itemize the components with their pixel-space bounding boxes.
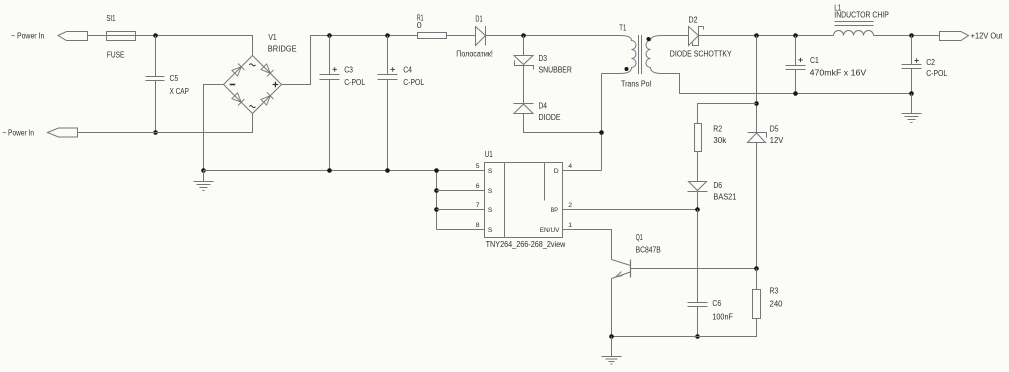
- resistor R2: [695, 124, 702, 152]
- junction +12V rail / C1: [793, 33, 798, 38]
- wire source pin bus: [436, 171, 438, 230]
- zener diode D3: [514, 56, 533, 65]
- svg-text:D4: D4: [539, 101, 548, 111]
- svg-text:C5: C5: [170, 73, 179, 83]
- junction bottom rail / C6: [695, 334, 700, 339]
- svg-text:C3: C3: [344, 64, 353, 74]
- wire C3 bottom lead: [329, 80, 331, 171]
- port ~Power In (top): [58, 32, 88, 41]
- wire base node to R3: [756, 269, 758, 290]
- svg-text:U1: U1: [485, 149, 493, 159]
- wire top AC rail to bridge top: [88, 36, 253, 56]
- junction DC rail / C3: [327, 33, 332, 38]
- svg-text:BP: BP: [551, 207, 559, 214]
- svg-text:C-POL: C-POL: [926, 68, 947, 78]
- svg-text:V1: V1: [268, 32, 276, 42]
- wire Q1 emitter down: [611, 279, 613, 337]
- bridge rectifier V1: [224, 56, 282, 114]
- svg-text:S: S: [488, 207, 493, 214]
- wire L1 to output port: [874, 35, 940, 37]
- svg-text:D5: D5: [770, 124, 779, 134]
- svg-text:30k: 30k: [713, 135, 727, 145]
- wire primary bottom to drain/pin4: [601, 74, 603, 171]
- polarity dot (secondary): [647, 37, 651, 41]
- svg-text:D1: D1: [475, 13, 482, 23]
- bridge diode (top-left arm): [232, 67, 241, 76]
- wire C2 bottom lead: [911, 69, 913, 94]
- capacitor C3: [320, 75, 340, 80]
- transformer T1 primary winding: [602, 36, 637, 74]
- diode D1: [476, 27, 486, 46]
- plus mark C1: [798, 58, 802, 62]
- resistor R1: [418, 33, 447, 39]
- wire D3 to D4: [523, 66, 525, 104]
- svg-text:0: 0: [417, 20, 422, 30]
- svg-text:D3: D3: [539, 53, 548, 63]
- schottky diode D2: [689, 27, 699, 46]
- bridge ~ mark (bottom): [249, 106, 255, 108]
- svg-text:R2: R2: [713, 124, 722, 134]
- junction bottom rail / emitter / ground: [609, 334, 614, 339]
- svg-text:C2: C2: [926, 57, 935, 67]
- wire C1 top lead: [795, 36, 797, 66]
- wire C4 top lead: [387, 36, 389, 75]
- svg-text:Trans Pol: Trans Pol: [621, 79, 651, 89]
- svg-text:240: 240: [770, 299, 783, 309]
- svg-text:5: 5: [476, 163, 480, 170]
- bridge diode (bottom-left arm): [232, 93, 241, 102]
- svg-text:D2: D2: [689, 15, 698, 25]
- svg-text:T1: T1: [619, 23, 626, 33]
- svg-text:R3: R3: [770, 285, 779, 295]
- bridge plus mark: [273, 82, 279, 88]
- svg-text:C4: C4: [403, 64, 412, 74]
- svg-text:12V: 12V: [770, 135, 784, 145]
- svg-text:8: 8: [476, 222, 480, 229]
- wire D6 to BP node: [697, 192, 699, 210]
- svg-text:+12V Out: +12V Out: [971, 31, 1003, 41]
- junction top rail / C5: [153, 33, 158, 38]
- wire bridge plus to DC rail: [282, 36, 418, 85]
- transformer T1 secondary winding: [646, 36, 662, 74]
- capacitor C5: [146, 77, 165, 81]
- svg-text:C6: C6: [712, 298, 721, 308]
- wire D4 to drain node: [524, 114, 602, 133]
- svg-text:BRIDGE: BRIDGE: [268, 43, 297, 53]
- svg-text:D: D: [554, 168, 559, 175]
- bridge diode (top-right arm): [261, 64, 270, 73]
- junction bus / pin6: [434, 188, 439, 193]
- wire C6 bottom lead: [697, 307, 699, 337]
- polarity dot (primary): [625, 67, 629, 71]
- wire to D3: [523, 36, 525, 56]
- transformer T1 core: [639, 35, 642, 74]
- svg-text:1: 1: [568, 222, 572, 229]
- zener diode D5: [748, 133, 767, 138]
- svg-text:470mkF x 16V: 470mkF x 16V: [810, 68, 867, 78]
- wire U1 pin 2 (BP) to D6 node: [563, 209, 698, 211]
- wire C6 top lead: [697, 210, 699, 303]
- svg-text:4: 4: [568, 163, 572, 170]
- bridge diode (bottom-right arm): [261, 96, 270, 105]
- svg-text:X CAP: X CAP: [170, 86, 190, 96]
- wire U1 pin 4 (D): [563, 170, 602, 172]
- svg-text:C-POL: C-POL: [403, 77, 424, 87]
- wire U1 pin 6: [437, 190, 485, 192]
- svg-text:S: S: [488, 188, 493, 195]
- diode D4: [514, 103, 534, 105]
- wire C5 top lead: [155, 36, 157, 77]
- junction bottom rail / C5: [153, 130, 158, 135]
- svg-text:Полосатик!: Полосатик!: [456, 48, 493, 58]
- svg-text:Q1: Q1: [636, 232, 643, 242]
- svg-text:S: S: [488, 168, 493, 175]
- wire C1 bottom lead: [795, 70, 797, 94]
- junction bus / pin5: [434, 168, 439, 173]
- wire secondary bottom / output ground rail: [662, 74, 912, 94]
- junction drain node: [599, 130, 604, 135]
- wire secondary top to D2: [662, 35, 689, 37]
- resistor R3: [753, 290, 761, 319]
- svg-text:BC847B: BC847B: [636, 245, 661, 255]
- wire U1 pin 7: [437, 209, 485, 211]
- wire bridge minus to ground rail: [204, 85, 224, 171]
- wire C5 bottom lead: [155, 81, 157, 133]
- wire D1 to transformer primary: [486, 35, 621, 37]
- junction +12V rail / feedback tap: [754, 33, 759, 38]
- port ~Power In (bottom): [48, 128, 78, 137]
- svg-text:C-POL: C-POL: [344, 77, 365, 87]
- bridge minus mark: [230, 84, 236, 86]
- junction base node / D5 / R3: [754, 266, 759, 271]
- svg-text:DIODE SCHOTTKY: DIODE SCHOTTKY: [670, 48, 732, 58]
- junction DC rail / C4: [385, 33, 390, 38]
- ground (below Q1 emitter): [602, 337, 622, 365]
- svg-text:7: 7: [476, 202, 480, 209]
- svg-text:INDUCTOR CHIP: INDUCTOR CHIP: [834, 10, 889, 20]
- wire Q1 base to base node: [631, 268, 757, 270]
- svg-text:BAS21: BAS21: [713, 192, 736, 202]
- svg-text:DIODE: DIODE: [539, 112, 561, 122]
- wire bottom AC rail to bridge bottom: [78, 114, 253, 133]
- junction +12V rail / C2: [909, 33, 914, 38]
- capacitor C4: [378, 75, 398, 80]
- junction output gnd rail / C2 / ground: [909, 91, 914, 96]
- svg-text:6: 6: [476, 183, 480, 190]
- diode D6: [689, 182, 707, 191]
- wire C4 bottom lead: [387, 80, 389, 171]
- svg-text:EN/UV: EN/UV: [540, 227, 560, 234]
- wire C2 top lead: [911, 36, 913, 65]
- junction ground rail / bridge minus: [201, 168, 206, 173]
- junction BP node / D6 / C6: [695, 207, 700, 212]
- port +12V Out: [940, 32, 969, 41]
- plus mark C4: [391, 67, 395, 71]
- junction ground rail / C3: [327, 168, 332, 173]
- wire D2 to L1: [699, 35, 834, 37]
- junction output gnd rail / C1: [793, 91, 798, 96]
- junction ground rail / C4: [385, 168, 390, 173]
- wire feedback tap down to D5: [756, 36, 758, 133]
- wire to R2 top: [698, 104, 757, 124]
- capacitor C6: [688, 303, 708, 307]
- wire R1 to D1: [447, 35, 476, 37]
- svg-text:~ Power In: ~ Power In: [2, 128, 34, 138]
- plus mark C3: [333, 67, 337, 71]
- svg-text:S: S: [488, 227, 493, 234]
- svg-text:SI1: SI1: [106, 13, 115, 23]
- junction DC rail / D3: [521, 33, 526, 38]
- junction bus / pin7: [434, 207, 439, 212]
- junction feedback / R2 feed: [754, 101, 759, 106]
- plus mark C2: [914, 58, 918, 62]
- IC U1 TNY264 body: [485, 163, 563, 238]
- svg-text:~ Power In: ~ Power In: [11, 31, 44, 41]
- fuse SI1: [107, 32, 136, 41]
- svg-text:D6: D6: [713, 180, 722, 190]
- ground (primary, below bridge): [194, 171, 214, 191]
- wire U1 pin 1 (EN/UV) to Q1 collector: [563, 230, 612, 260]
- bridge ~ mark (top): [249, 64, 255, 66]
- transistor Q1 BC847B: [612, 260, 631, 279]
- wire R2 to D6: [697, 152, 699, 182]
- wire primary ground rail / U1 pin5 line: [204, 170, 485, 172]
- wire C3 top lead: [329, 36, 331, 75]
- wire D5 to base node: [756, 143, 758, 269]
- svg-text:2: 2: [568, 202, 572, 209]
- svg-text:TNY264_266-268_2view: TNY264_266-268_2view: [486, 239, 566, 249]
- svg-text:FUSE: FUSE: [107, 50, 125, 60]
- inductor L1: [834, 31, 874, 36]
- wire R3 to bottom rail: [612, 319, 757, 337]
- ground (output, below C2): [902, 94, 922, 123]
- wire U1 pin 8: [437, 229, 485, 231]
- svg-text:100nF: 100nF: [712, 312, 733, 322]
- svg-text:C1: C1: [810, 55, 819, 65]
- svg-text:SNUBBER: SNUBBER: [539, 65, 572, 75]
